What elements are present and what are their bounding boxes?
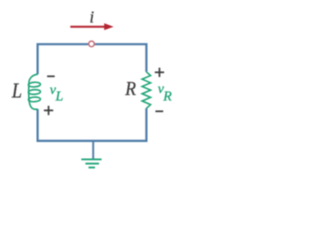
svg-text:R: R <box>124 78 136 100</box>
svg-text:R: R <box>162 90 172 105</box>
svg-text:L: L <box>55 90 64 105</box>
svg-text:L: L <box>11 79 22 103</box>
svg-text:i: i <box>90 8 95 27</box>
